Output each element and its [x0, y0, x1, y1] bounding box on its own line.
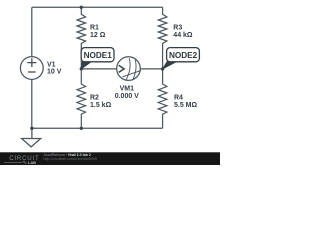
svg-text:10 V: 10 V: [47, 69, 62, 76]
footer bar: [0, 152, 220, 165]
svg-text:VM1: VM1: [120, 86, 135, 93]
wire top rail: [32, 6, 163, 8]
svg-text:5.5 MΩ: 5.5 MΩ: [174, 102, 198, 109]
resistor R1: [77, 7, 86, 69]
label R4 value: [174, 95, 198, 109]
svg-text:http://circuitlab.com/c/swm5k5: http://circuitlab.com/c/swm5k5t995: [44, 157, 98, 161]
wire voltmeter to node B: [140, 68, 162, 70]
wire left rail lower: [31, 80, 33, 129]
label V1 value: [47, 61, 62, 75]
svg-text:NODE2: NODE2: [169, 51, 198, 60]
label VM1 value: [115, 86, 139, 100]
svg-text:R3: R3: [173, 25, 182, 32]
wire bottom rail: [32, 127, 163, 129]
label R2 value: [90, 95, 112, 109]
junction node B: [161, 67, 164, 70]
svg-text:AsadRahman / final 2.3 lab 2: AsadRahman / final 2.3 lab 2: [44, 153, 91, 157]
footer logo CircuitLab: [4, 155, 40, 165]
svg-text:LAB: LAB: [28, 160, 36, 165]
svg-text:NODE1: NODE1: [84, 51, 113, 60]
wire left rail upper: [31, 7, 33, 56]
voltmeter VM1: [117, 57, 141, 81]
node flag NODE1: [81, 48, 114, 69]
svg-text:1.5 kΩ: 1.5 kΩ: [90, 102, 112, 109]
voltage source V1: [20, 57, 43, 80]
svg-text:V1: V1: [47, 61, 56, 68]
svg-text:R1: R1: [90, 25, 99, 32]
resistor R3: [158, 7, 167, 69]
svg-text:R4: R4: [174, 95, 183, 102]
svg-text:44 kΩ: 44 kΩ: [173, 32, 193, 39]
resistor R2: [77, 69, 86, 129]
junction dot bottom R2: [80, 127, 83, 130]
svg-text:0.000 V: 0.000 V: [115, 93, 139, 100]
junction node A: [80, 67, 83, 70]
resistor R4: [158, 69, 167, 128]
label R3 value: [173, 25, 193, 39]
junction dot top R1: [80, 6, 83, 9]
ground: [22, 128, 41, 147]
label R1 value: [90, 25, 106, 39]
junction dot ground: [30, 127, 33, 130]
svg-text:R2: R2: [90, 95, 99, 102]
svg-text:12 Ω: 12 Ω: [90, 32, 106, 39]
wire node A to voltmeter: [81, 68, 117, 70]
node flag NODE2: [163, 48, 200, 69]
